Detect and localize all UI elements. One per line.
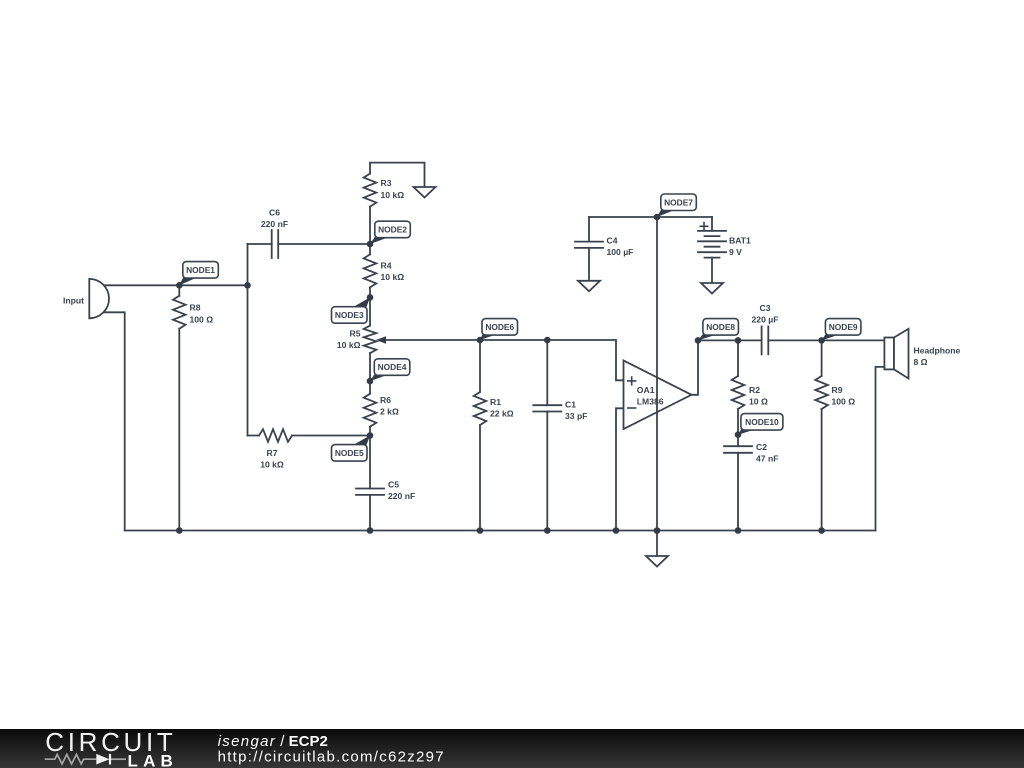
potentiometer R5 <box>369 297 371 381</box>
wire input bottom drop <box>104 312 125 530</box>
svg-text:100 µF: 100 µF <box>607 247 634 257</box>
resistor R7 <box>248 435 371 437</box>
svg-text:LAB: LAB <box>128 751 173 768</box>
svg-text:47 nF: 47 nF <box>756 454 778 464</box>
op-amp plus sign <box>627 376 636 385</box>
svg-text:BAT1: BAT1 <box>729 236 751 246</box>
wire R3 top to ground arm <box>370 163 425 187</box>
ground at BAT1 <box>701 283 723 294</box>
svg-text:10 kΩ: 10 kΩ <box>260 460 284 470</box>
op-amp OA1 <box>624 361 692 430</box>
svg-text:22 kΩ: 22 kΩ <box>490 409 514 419</box>
svg-text:33 pF: 33 pF <box>565 411 587 421</box>
capacitor C6 <box>272 230 279 258</box>
svg-text:NODE9: NODE9 <box>829 322 858 332</box>
wire C3 to speaker <box>768 339 884 341</box>
svg-text:LM386: LM386 <box>637 397 664 407</box>
capacitor C4 <box>588 217 590 281</box>
svg-text:R3: R3 <box>381 178 392 188</box>
capacitor C1 <box>546 340 548 531</box>
junction bottom rail at C2 bottom <box>735 527 742 534</box>
svg-text:R8: R8 <box>190 303 201 313</box>
wire op-amp power pin <box>656 217 658 531</box>
svg-text:OA1: OA1 <box>637 385 655 395</box>
node NODE7 <box>657 208 676 218</box>
svg-text:R9: R9 <box>832 385 843 395</box>
svg-text:2 kΩ: 2 kΩ <box>380 407 399 417</box>
junction R2 top <box>735 337 742 344</box>
capacitor C5 <box>369 436 371 531</box>
svg-text:R1: R1 <box>490 397 501 407</box>
node NODE10 <box>738 427 756 435</box>
svg-text:8 Ω: 8 Ω <box>914 357 928 367</box>
junction C1 top <box>544 337 551 344</box>
junction bottom rail at R9 bottom <box>818 527 825 534</box>
svg-text:R7: R7 <box>267 448 278 458</box>
node NODE9 <box>822 332 841 340</box>
svg-text:10 kΩ: 10 kΩ <box>381 190 405 200</box>
junction bottom rail at C1 bottom <box>544 527 551 534</box>
junction at NODE1 rail x247 <box>244 282 251 289</box>
node NODE3 <box>352 297 370 309</box>
input port Input <box>89 279 109 318</box>
svg-text:NODE10: NODE10 <box>745 417 779 427</box>
wiper arrow R5 <box>385 339 480 341</box>
op-amp minus sign <box>627 407 636 409</box>
svg-text:NODE5: NODE5 <box>335 448 364 458</box>
resistor R2 <box>737 340 739 434</box>
ground at R3 <box>414 187 436 198</box>
resistor R4 <box>369 244 371 297</box>
svg-text:NODE2: NODE2 <box>378 225 407 235</box>
wire NODE8 rail to C3 <box>698 339 762 341</box>
wire NODE6 rail to op-amp noninverting input <box>480 340 624 380</box>
ground below op-amp <box>656 531 658 557</box>
junction bottom rail at C5 bottom <box>367 527 374 534</box>
node NODE2 <box>370 235 390 244</box>
svg-text:NODE8: NODE8 <box>706 322 735 332</box>
svg-text:C2: C2 <box>756 442 767 452</box>
svg-text:220 nF: 220 nF <box>388 491 415 501</box>
junction bottom rail at R8 bottom <box>176 527 183 534</box>
svg-text:C6: C6 <box>269 208 280 218</box>
svg-text:NODE7: NODE7 <box>664 197 693 207</box>
svg-text:NODE6: NODE6 <box>485 322 514 332</box>
svg-text:220 µF: 220 µF <box>752 315 779 325</box>
node NODE8 <box>698 332 718 340</box>
svg-text:100 Ω: 100 Ω <box>832 397 856 407</box>
battery plus sign <box>700 222 709 231</box>
resistor R3 <box>364 174 377 207</box>
wire input top to NODE1 rail <box>104 284 248 286</box>
ground at C4 <box>578 281 600 292</box>
svg-text:R6: R6 <box>380 395 391 405</box>
resistor R8 <box>178 285 180 530</box>
svg-text:C1: C1 <box>565 400 576 410</box>
wire NODE7 top rail <box>589 216 712 218</box>
svg-text:R4: R4 <box>381 261 392 271</box>
svg-text:220 nF: 220 nF <box>261 219 288 229</box>
svg-text:R2: R2 <box>749 385 760 395</box>
node NODE6 <box>480 332 497 340</box>
svg-text:NODE4: NODE4 <box>378 362 407 372</box>
svg-text:100 Ω: 100 Ω <box>190 314 214 324</box>
wire C6 left plate lead <box>248 243 272 245</box>
svg-text:Input: Input <box>63 296 84 306</box>
wire C6 left feed down to R7 <box>247 244 249 436</box>
junction bottom rail at R1 bottom <box>477 527 484 534</box>
junction bottom rail at power ground <box>654 527 661 534</box>
speaker Headphone <box>884 338 894 370</box>
logo resistor-diode glyph <box>45 754 97 764</box>
svg-text:http://circuitlab.com/c62z297: http://circuitlab.com/c62z297 <box>218 749 444 766</box>
capacitor C2 <box>737 435 739 531</box>
wire op-amp output up to NODE8 <box>692 340 699 394</box>
svg-text:10 kΩ: 10 kΩ <box>337 340 361 350</box>
resistor R1 <box>479 340 481 531</box>
resistor R9 <box>821 340 823 530</box>
battery BAT1 <box>711 217 713 283</box>
junction bottom rail at inverting input <box>613 527 620 534</box>
wire op-amp inverting input to ground rail <box>616 408 624 530</box>
svg-text:Headphone: Headphone <box>914 346 961 356</box>
node NODE4 <box>370 372 389 381</box>
svg-text:C3: C3 <box>760 303 771 313</box>
svg-text:NODE3: NODE3 <box>335 310 364 320</box>
svg-text:10 Ω: 10 Ω <box>749 397 768 407</box>
node NODE5 <box>352 436 370 448</box>
svg-text:isengar / ECP2: isengar / ECP2 <box>218 733 328 750</box>
wire C6 right plate to NODE2 <box>278 243 370 245</box>
svg-text:C5: C5 <box>388 480 399 490</box>
resistor R6 <box>369 381 371 436</box>
svg-text:NODE1: NODE1 <box>186 265 215 275</box>
node NODE1 <box>179 275 198 285</box>
capacitor C3 <box>762 326 769 354</box>
svg-text:10 kΩ: 10 kΩ <box>381 272 405 282</box>
svg-text:9 V: 9 V <box>729 247 742 257</box>
svg-text:R5: R5 <box>350 329 361 339</box>
svg-text:C4: C4 <box>607 236 618 246</box>
wire speaker bottom drop <box>876 367 885 531</box>
wire bottom ground rail <box>125 530 876 532</box>
